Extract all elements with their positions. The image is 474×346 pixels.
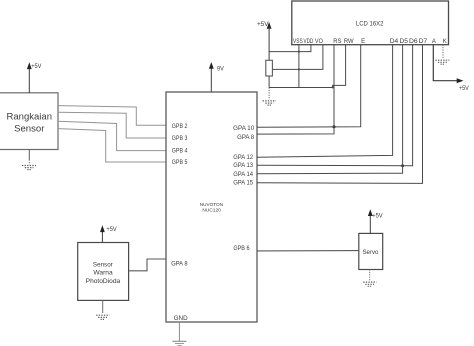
svg-text:GPA 15: GPA 15 [233, 181, 254, 187]
wire A pin to +5V arrow [433, 45, 458, 81]
wire +5V rail to VDD [269, 45, 311, 52]
svg-text:GPB 2: GPB 2 [172, 124, 188, 130]
junction dot (RS crossing GPA10 wire) [333, 125, 336, 128]
svg-text:GPA 8: GPA 8 [237, 135, 255, 141]
svg-text:VDD: VDD [304, 39, 314, 45]
power +5V (photodioda) [101, 230, 103, 243]
svg-text:D5: D5 [400, 39, 409, 45]
junction dot (ground rail at RS/RW corner) [332, 86, 334, 88]
power +5V (servo) [369, 214, 371, 234]
wire photodioda to GPA 8 (left) [129, 259, 166, 271]
svg-text:Sensor: Sensor [14, 124, 45, 135]
module: LCD 16X2 [292, 1, 449, 45]
svg-text:E: E [361, 39, 365, 45]
ground (MCU GND pin) [178, 322, 180, 341]
wire GPA 14 to D5 [257, 45, 403, 174]
box: Servo [359, 233, 383, 269]
wire sensor to GPB 2 [58, 106, 166, 126]
svg-text:Servo: Servo [363, 249, 379, 256]
wire sensor to GPB 5 [58, 129, 166, 162]
svg-text:+5V: +5V [257, 21, 269, 28]
wire GPA 13 to D6 [257, 45, 413, 166]
wire GPA 10 to E [257, 45, 361, 128]
svg-text:D7: D7 [419, 39, 428, 45]
wire GPA 15 to D7 [257, 45, 423, 184]
power +5V (sensor) [28, 67, 30, 93]
svg-text:LCD 16X2: LCD 16X2 [356, 21, 384, 28]
wire GPB 6 to servo [257, 250, 359, 252]
power 9V (MCU) [210, 67, 212, 93]
svg-text:GPB 6: GPB 6 [233, 246, 250, 252]
svg-text:PhotoDioda: PhotoDioda [86, 278, 121, 285]
IC U1: NUVOTON NUC120 [166, 92, 257, 322]
wire GPA 12 to D4 [257, 45, 393, 158]
svg-text:D6: D6 [409, 39, 418, 45]
svg-text:VSS: VSS [293, 39, 303, 45]
svg-text:K: K [443, 39, 447, 45]
svg-text:9V: 9V [217, 65, 225, 72]
svg-text:+5V: +5V [372, 213, 383, 220]
svg-text:GPB 3: GPB 3 [172, 136, 188, 142]
wire sensor to GPB 3 [58, 112, 166, 138]
box: Rangkaian Sensor [0, 93, 58, 150]
svg-text:NUC120: NUC120 [202, 207, 221, 213]
svg-text:D4: D4 [390, 39, 399, 45]
box: Sensor Warna PhotoDioda [78, 243, 129, 301]
svg-text:GPA 10: GPA 10 [233, 126, 255, 132]
ground (servo, dashed) [369, 270, 371, 281]
svg-text:A: A [432, 39, 436, 45]
wire GPA 8 to RS [257, 45, 334, 134]
svg-text:VO: VO [315, 39, 323, 45]
ground (contrast, dashed) [268, 88, 270, 100]
svg-text:RW: RW [344, 39, 354, 45]
wire ground rail with VSS [269, 87, 333, 89]
svg-text:GPB 5: GPB 5 [172, 160, 188, 166]
svg-text:RS: RS [333, 39, 341, 45]
svg-text:GND: GND [174, 315, 188, 322]
svg-text:+5V: +5V [31, 63, 42, 70]
svg-text:GPA 14: GPA 14 [233, 172, 254, 178]
svg-text:GPA 8: GPA 8 [171, 262, 188, 268]
svg-text:NUVOTON: NUVOTON [200, 202, 224, 208]
junction dot (D5 crossing GPA13 wire) [401, 164, 404, 167]
resistor VR1 (contrast divider) [266, 60, 273, 76]
svg-text:+5V: +5V [459, 85, 469, 92]
svg-text:+5V: +5V [106, 226, 117, 233]
wire RW to ground rail [333, 45, 346, 88]
ground (photodioda, dashed) [102, 300, 104, 311]
svg-text:Sensor: Sensor [93, 261, 114, 268]
svg-text:GPA 13: GPA 13 [233, 163, 254, 169]
svg-text:GPA 12: GPA 12 [233, 155, 254, 161]
wire sensor to GPB 4 [58, 121, 166, 150]
ground (sensor, dashed) [28, 150, 30, 160]
junction dot (VSS crossing wiper wire) [298, 68, 300, 70]
svg-text:GPB 4: GPB 4 [172, 148, 188, 154]
junction dot (VSS crossing VDD rail) [298, 51, 300, 53]
wire resistor wiper to VO [272, 45, 323, 70]
svg-text:Warna: Warna [93, 269, 113, 276]
ground (K pin, dashed) [442, 45, 444, 59]
svg-text:Rangkaian: Rangkaian [7, 112, 53, 123]
